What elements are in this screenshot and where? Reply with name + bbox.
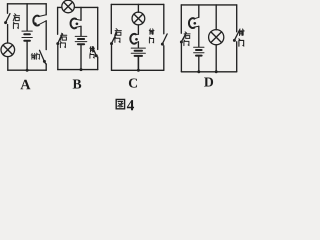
glyph 4 bbox=[127, 100, 134, 110]
wire C middle stub bottom bbox=[137, 56, 139, 70]
wire B right upper bbox=[97, 7, 99, 49]
junction B bottom bbox=[80, 68, 83, 71]
label A bbox=[20, 80, 30, 89]
wire B top right bbox=[74, 6, 97, 8]
wire D bottom bbox=[181, 71, 236, 73]
wire A bottom bbox=[8, 69, 46, 71]
wire A right upper bbox=[45, 4, 47, 15]
label qianmen B bbox=[90, 47, 95, 59]
circuit B bbox=[56, 0, 98, 88]
wire B left lower bbox=[57, 45, 59, 69]
wire C left lower bbox=[111, 45, 113, 70]
wire A middle branch upper bbox=[26, 4, 28, 31]
wire A left upper bbox=[7, 4, 9, 14]
circuit D bbox=[180, 5, 244, 87]
wire D bell branch mid bbox=[198, 26, 200, 46]
lamp B bbox=[62, 0, 75, 13]
switch D front-door bbox=[233, 32, 239, 42]
label qianmen C bbox=[149, 29, 154, 43]
label houmen D bbox=[184, 32, 190, 46]
switch A front-door bbox=[40, 50, 47, 64]
junction D bell branch bbox=[197, 70, 200, 73]
label D bbox=[204, 78, 213, 87]
battery A bbox=[22, 31, 32, 41]
switch B front-door bbox=[92, 47, 97, 57]
label C bbox=[129, 78, 137, 87]
label B bbox=[73, 80, 82, 89]
wire A left mid bbox=[7, 25, 9, 43]
wire B middle branch mid bbox=[80, 26, 82, 36]
wire C left bbox=[110, 4, 112, 33]
bell A bbox=[33, 15, 46, 26]
battery C bbox=[131, 48, 145, 56]
label qianmen D bbox=[239, 29, 244, 46]
switch B back-door bbox=[56, 34, 62, 45]
wire D bell branch lower bbox=[198, 56, 200, 72]
circuit C bbox=[110, 4, 167, 87]
label houmen C bbox=[115, 29, 122, 43]
lamp C bbox=[132, 12, 145, 25]
wire C right lower bbox=[163, 46, 165, 71]
wire B middle branch top bbox=[80, 7, 82, 20]
wire B top left bbox=[58, 6, 62, 8]
circuit A bbox=[1, 4, 46, 89]
wire D right lower bbox=[236, 42, 238, 72]
wire D left upper bbox=[180, 5, 182, 33]
wire B middle branch lower bbox=[80, 44, 82, 69]
wire A middle branch lower bbox=[26, 41, 28, 70]
junction A bottom bbox=[26, 69, 29, 72]
wire C middle stub 3 bbox=[137, 42, 139, 48]
wire C right upper bbox=[163, 4, 165, 33]
lamp A bbox=[1, 43, 15, 57]
wire C middle stub top bbox=[137, 4, 139, 12]
wire D bell branch top bbox=[198, 5, 200, 17]
label houmen A bbox=[13, 14, 19, 29]
wire C middle stub 2 bbox=[137, 25, 139, 34]
wire B bottom bbox=[58, 69, 98, 71]
battery B bbox=[75, 36, 87, 44]
wire D right upper bbox=[236, 5, 238, 32]
switch C back-door bbox=[110, 34, 116, 45]
wire C top bbox=[111, 3, 164, 5]
junction C bottom bbox=[137, 69, 140, 72]
switch D back-door bbox=[180, 33, 186, 44]
glyph tu bbox=[116, 99, 124, 108]
wire D left lower bbox=[180, 44, 182, 72]
label qianmen A bbox=[31, 53, 39, 59]
wire A right mid bbox=[45, 21, 47, 50]
switch A back-door bbox=[4, 14, 10, 25]
wire D lamp branch top bbox=[215, 5, 217, 30]
battery D bbox=[194, 47, 204, 55]
wire D lamp branch lower bbox=[215, 45, 217, 72]
caption figure 4 bbox=[116, 99, 134, 110]
wire B right lower bbox=[97, 57, 99, 70]
wire A top bbox=[8, 3, 47, 5]
bell D bbox=[189, 17, 199, 28]
lamp D bbox=[209, 30, 224, 45]
bell B bbox=[71, 19, 81, 29]
label houmen B bbox=[60, 33, 67, 47]
wire A left lower bbox=[7, 57, 9, 71]
wire A right lower bbox=[45, 64, 47, 70]
bell C bbox=[130, 34, 138, 44]
junction D lamp branch bbox=[215, 70, 218, 73]
wire B left bbox=[57, 7, 59, 34]
switch C front-door bbox=[161, 34, 167, 46]
wire D top bbox=[181, 4, 236, 6]
wire C bottom bbox=[112, 69, 164, 71]
